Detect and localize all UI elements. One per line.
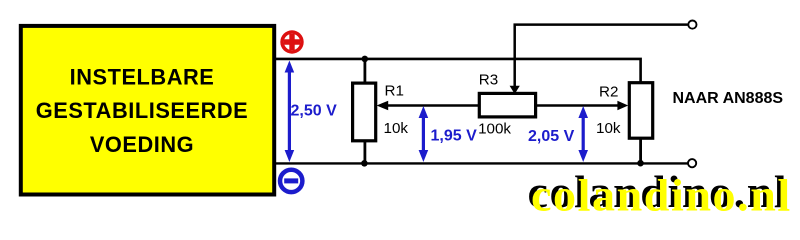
wire middle: R3 right to R2 wiper tap [536,104,619,107]
output terminal bottom (open circle) [688,159,696,167]
resistor R2 body [629,83,652,139]
wire middle: R1 wiper tap to R3 left [387,104,480,107]
wire top rail (+) from block to R2 top [276,59,641,82]
arrowhead into R2 (wiper tap) [617,101,628,111]
measurement arrow 2,05 V [578,106,588,162]
watermark colandino.nl [528,166,792,221]
svg-text:2,05 V: 2,05 V [528,128,575,145]
junction node R1 top [362,56,369,63]
potentiometer R3 body [479,93,535,117]
measurement arrow 2,50 V [285,61,295,163]
svg-text:R2: R2 [599,84,618,101]
svg-text:GESTABILISEERDE: GESTABILISEERDE [36,98,249,123]
wire bottom rail (-) from block to output terminal [276,162,688,164]
wire R2 bottom lead [639,139,642,163]
svg-text:colandino.nl: colandino.nl [531,170,792,218]
arrowhead R3 wiper (down) [510,86,520,94]
minus terminal symbol [280,170,302,192]
svg-text:R3: R3 [479,72,498,89]
svg-text:VOEDING: VOEDING [90,132,194,157]
resistor R1 body [353,83,376,141]
wire R1 top lead [363,59,366,82]
svg-text:R1: R1 [385,83,404,100]
wire R3 wiper up and right to output terminal [515,25,688,90]
svg-text:INSTELBARE: INSTELBARE [70,64,215,89]
power supply block U1 (INSTELBARE GESTABILISEERDE VOEDING) [21,26,274,195]
svg-text:10k: 10k [596,120,621,137]
measurement arrow 1,95 V [419,106,429,162]
wire R1 bottom lead [363,142,366,164]
svg-text:NAAR AN888S: NAAR AN888S [673,90,784,107]
svg-text:1,95 V: 1,95 V [431,128,478,145]
arrowhead into R1 (wiper tap) [377,101,389,111]
output terminal top (open circle) [688,21,696,29]
svg-text:2,50 V: 2,50 V [291,103,338,120]
junction node R2 bottom [637,160,644,167]
junction node R1 bottom [361,160,368,167]
svg-text:100k: 100k [478,121,511,138]
svg-text:10k: 10k [384,120,409,137]
plus terminal symbol [280,30,303,53]
